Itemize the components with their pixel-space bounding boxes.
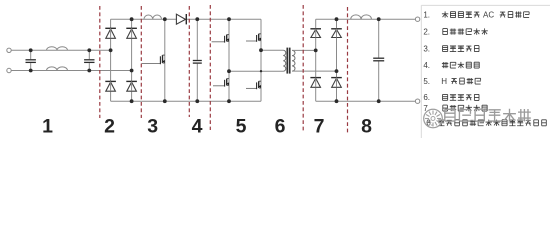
svg-text:5: 5 bbox=[236, 115, 247, 137]
svg-text:3: 3 bbox=[147, 115, 158, 137]
svg-text:7: 7 bbox=[314, 115, 325, 137]
svg-text:AC: AC bbox=[481, 10, 497, 19]
svg-text:4.: 4. bbox=[423, 61, 430, 70]
svg-text:6.: 6. bbox=[423, 93, 430, 102]
svg-text:2.: 2. bbox=[423, 27, 430, 36]
svg-text:2: 2 bbox=[104, 115, 115, 137]
svg-text:8: 8 bbox=[361, 115, 372, 137]
svg-text:1: 1 bbox=[42, 115, 53, 137]
svg-text:1.: 1. bbox=[423, 10, 430, 19]
svg-text:3.: 3. bbox=[423, 44, 430, 53]
svg-text:4: 4 bbox=[192, 115, 203, 137]
svg-text:H: H bbox=[441, 77, 449, 86]
svg-text:5.: 5. bbox=[423, 77, 430, 86]
svg-text:6: 6 bbox=[275, 115, 286, 137]
